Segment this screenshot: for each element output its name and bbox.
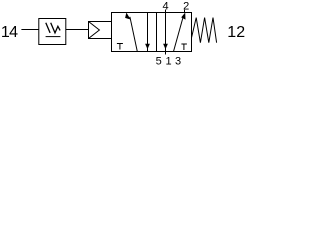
svg-text:12: 12 bbox=[227, 24, 245, 41]
svg-text:4: 4 bbox=[163, 0, 169, 12]
svg-text:2: 2 bbox=[183, 0, 189, 12]
svg-text:5: 5 bbox=[156, 55, 162, 65]
svg-text:1: 1 bbox=[165, 55, 171, 65]
svg-text:3: 3 bbox=[175, 55, 181, 65]
svg-text:14: 14 bbox=[1, 24, 18, 41]
